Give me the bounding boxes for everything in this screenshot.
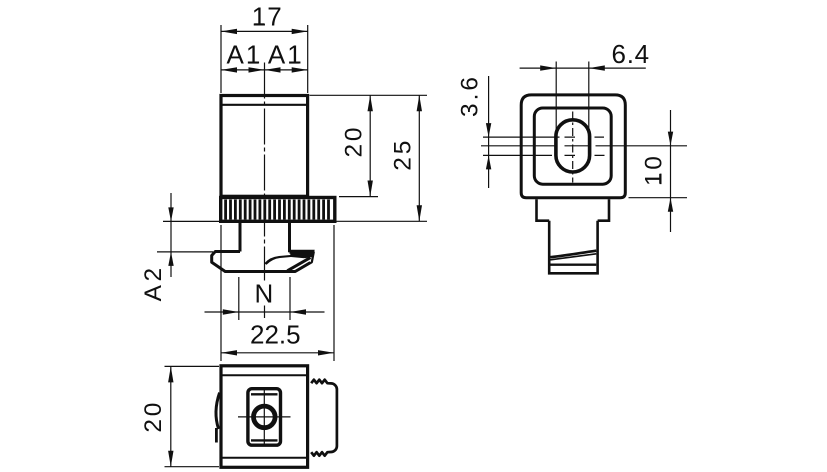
svg-text:A1: A1	[226, 40, 262, 70]
svg-text:A1: A1	[268, 40, 304, 70]
svg-text:17: 17	[252, 1, 283, 31]
svg-text:10: 10	[640, 153, 667, 186]
svg-text:22.5: 22.5	[250, 320, 301, 350]
svg-text:6.4: 6.4	[611, 39, 649, 69]
svg-text:3.6: 3.6	[456, 74, 483, 117]
svg-text:25: 25	[390, 138, 417, 171]
svg-text:20: 20	[341, 125, 368, 158]
svg-text:A2: A2	[140, 264, 167, 301]
svg-text:20: 20	[140, 400, 167, 433]
svg-text:N: N	[255, 279, 274, 309]
